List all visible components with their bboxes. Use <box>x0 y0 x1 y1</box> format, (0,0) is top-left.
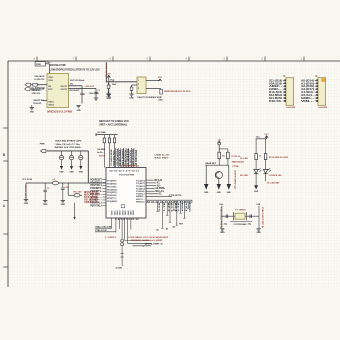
solder jumper chain <box>121 239 124 242</box>
svg-text:LDO·EN·BYP: LDO·EN·BYP <box>69 90 80 92</box>
svg-text:SDA·A4·: SDA·A4· <box>155 190 164 193</box>
comb below right bus <box>156 201 190 228</box>
regulator U1 body <box>47 73 68 107</box>
svg-text:GND1: GND1 <box>48 101 55 103</box>
rail above IC <box>96 134 118 136</box>
svg-text:GND: GND <box>106 97 111 99</box>
LED D2 ground arrow <box>255 174 257 186</box>
cap C11 <box>225 214 227 218</box>
svg-text:PB7/XTAL2: PB7/XTAL2 <box>90 205 102 208</box>
ground left drop <box>24 199 28 201</box>
svg-text:BASE·NET: BASE·NET <box>206 162 217 165</box>
wires to LEDs <box>255 160 257 170</box>
cap C12 <box>249 214 251 218</box>
resistor R2 <box>103 135 105 138</box>
svg-text:GN7: GN7 <box>131 210 133 215</box>
vertical net run with arrow <box>74 203 76 217</box>
U2 bottom inner rotated pin names <box>112 209 136 215</box>
resistor R4 <box>114 135 116 138</box>
resistor R6 <box>218 152 221 159</box>
svg-text:PD5(T1)··: PD5(T1)·· <box>107 198 117 200</box>
stub to ground from U3 pin2 <box>132 84 138 86</box>
U2 right pin wires <box>146 180 158 194</box>
ferrite bead L2 <box>53 181 59 185</box>
svg-text:EN: EN <box>48 86 51 88</box>
svg-text:PC2(ADC2): PC2(ADC2) <box>136 185 145 188</box>
ground under C5 <box>106 92 110 94</box>
svg-text:PD2/INT0·: PD2/INT0· <box>90 188 102 190</box>
capacitor C8 <box>80 151 82 156</box>
svg-text:MIC5219-3.3YM5: MIC5219-3.3YM5 <box>50 65 67 67</box>
svg-text:A3·PWM·: A3·PWM· <box>155 187 165 190</box>
svg-text:GN3: GN3 <box>120 210 122 215</box>
svg-text:ICSP·MISO·VCC·SCK·MOSI·RST: ICSP·MISO·VCC·SCK·MOSI·RST <box>128 237 169 239</box>
svg-text:GN6: GN6 <box>128 210 130 215</box>
U2 bottom pin wires <box>112 218 131 243</box>
J2 polarity mark <box>321 78 325 82</box>
ground under C1 <box>107 93 111 95</box>
power connector arrow <box>41 149 46 152</box>
svg-text:AVR-ISP-6: AVR-ISP-6 <box>145 243 165 246</box>
crystal top wire <box>222 215 259 217</box>
resistor R5 <box>74 194 80 197</box>
J1 pin stubs <box>283 79 286 102</box>
frame tick marks top <box>34 57 305 62</box>
wire U1 OUT to 3V3 <box>68 85 82 87</box>
svg-text:GN8: GN8 <box>133 210 135 215</box>
power rail wire <box>47 150 89 152</box>
svg-text:GND: GND <box>158 99 163 101</box>
frame border left <box>7 61 9 287</box>
svg-text:R2·R3: R2·R3 <box>99 155 105 157</box>
svg-text:VIN···: VIN··· <box>301 100 314 103</box>
connector arrow X1-1 <box>25 83 30 86</box>
svg-text:A1·: A1· <box>157 182 160 185</box>
svg-text:PWR: PWR <box>40 144 45 146</box>
svg-text:GND: GND <box>30 112 35 114</box>
svg-text:CSTCE16M0: CSTCE16M0 <box>234 224 247 226</box>
tick under ISP <box>142 246 144 247</box>
svg-text:CTRL: CTRL <box>232 166 240 168</box>
svg-text:A2··: A2·· <box>157 184 161 187</box>
svg-text:VCC: VCC <box>264 134 269 136</box>
svg-text:RATED 16V X7R 0805··: RATED 16V X7R 0805·· <box>55 146 83 149</box>
power symbol VCC <box>265 136 268 138</box>
svg-text:GND: GND <box>79 172 84 174</box>
LED D3 <box>263 169 267 173</box>
svg-text:XTAL2·OSC2·PB7·IN: XTAL2·OSC2·PB7·IN <box>261 207 264 228</box>
VCC rail to IC <box>26 182 106 184</box>
left drop wire <box>25 183 27 200</box>
svg-text:1x8 HDR: 1x8 HDR <box>286 107 295 109</box>
svg-text:PC6/RESET: PC6/RESET <box>90 179 102 181</box>
svg-text:PWR: PWR <box>36 64 42 66</box>
svg-text:AVCC·NET: AVCC·NET <box>24 185 27 199</box>
svg-text:MMBT2222A: MMBT2222A <box>232 160 244 163</box>
svg-text:GND: GND <box>254 191 259 193</box>
svg-text:+3V3·OUT·: +3V3·OUT· <box>85 86 95 88</box>
svg-text:PD0/RXD·0: PD0/RXD·0 <box>90 182 102 184</box>
svg-text:GND: GND <box>61 204 66 206</box>
svg-text:R5 10k: R5 10k <box>74 192 83 194</box>
svg-text:GN0: GN0 <box>112 210 114 215</box>
svg-text:USB D+/D-: USB D+/D- <box>155 154 171 156</box>
svg-text:VOUT·3V3·500mA: VOUT·3V3·500mA <box>70 79 85 82</box>
cap C9 drop <box>44 183 46 190</box>
svg-text:10k·RN1: 10k·RN1 <box>97 149 106 151</box>
resistor R9 <box>264 154 267 160</box>
svg-text:PD6(AIN0): PD6(AIN0) <box>107 200 117 203</box>
resistor R3 <box>108 135 110 138</box>
svg-text:VOUT1: VOUT1 <box>60 86 68 88</box>
svg-text:Y1·16MHz: Y1·16MHz <box>235 210 246 212</box>
LED branch wires <box>255 139 257 154</box>
svg-text:PD1/TXD·1: PD1/TXD·1 <box>90 185 102 187</box>
wires below resistors <box>218 159 220 166</box>
svg-text:VOUT2: VOUT2 <box>60 89 68 91</box>
ground under C8 <box>79 166 82 170</box>
connector J1 body <box>286 78 294 106</box>
svg-text:PD4(XCK)·: PD4(XCK)· <box>107 194 117 197</box>
svg-text:SOD-123·: SOD-123· <box>32 93 41 95</box>
rail left tick <box>95 133 97 136</box>
svg-text:GN4: GN4 <box>121 209 124 215</box>
svg-text:PD1/TXD·D1: PD1/TXD·D1 <box>118 150 120 167</box>
J1 pin net labels <box>269 79 282 103</box>
jumper JP6 box <box>35 62 45 66</box>
U3 output to VCC arrow <box>146 79 160 81</box>
ferrite bead L1 <box>33 83 38 86</box>
capacitor C6 <box>61 151 63 156</box>
ground under left pins <box>31 105 33 107</box>
frame border top <box>8 60 340 62</box>
U3 pin3 wire <box>146 88 161 90</box>
wire to U3 <box>107 81 138 83</box>
crystal right branch <box>258 206 260 229</box>
crystal left branch <box>221 206 223 229</box>
ground under C6 <box>60 166 63 170</box>
svg-text:GN2: GN2 <box>117 210 119 215</box>
comb of wires into IC top <box>116 148 134 168</box>
off-page arrow 1 <box>205 165 207 184</box>
vertical net wire with rotated label DTR <box>106 62 108 82</box>
bend wire XTAL1 <box>95 227 112 229</box>
resistor R7 <box>227 152 230 159</box>
ground under C9 <box>43 200 47 202</box>
svg-text:GND: GND <box>43 204 48 206</box>
ground under C10 <box>61 200 65 202</box>
J2 pin net labels <box>301 79 314 103</box>
svg-text:MBRA140··: MBRA140·· <box>32 89 42 92</box>
svg-text:AREF = AVCC (INTERNAL): AREF = AVCC (INTERNAL) <box>99 123 127 126</box>
svg-text:XTAL1·OSC1·PB6·IN: XTAL1·OSC1·PB6·IN <box>220 207 223 228</box>
svg-text:74LVC1G125DBV BUF: 74LVC1G125DBV BUF <box>137 96 163 99</box>
ground under C7 <box>70 166 73 170</box>
IC left pin wires and labels <box>90 179 106 207</box>
LED D3 net label <box>265 174 267 182</box>
svg-text:LOW DROPOUT REGULATOR 5V TO 3.: LOW DROPOUT REGULATOR 5V TO 3.3V LDO <box>50 68 100 71</box>
svg-text:GND: GND <box>220 232 225 234</box>
resistor R1 <box>160 89 163 94</box>
ON/OFF stub <box>43 99 48 101</box>
svg-text:GND: GND <box>24 203 29 205</box>
U2 thermal pad mark <box>121 205 125 208</box>
ground left <box>220 228 224 230</box>
rotated net labels over comb <box>116 149 137 167</box>
svg-text:GND: GND <box>256 232 261 234</box>
svg-text:4x1k··: 4x1k·· <box>97 151 104 154</box>
connector J2 body <box>318 78 326 106</box>
rail bend down to VCC rail <box>87 151 89 183</box>
svg-text:L··LED13↓: L··LED13↓ <box>105 236 117 239</box>
lower crystal wire <box>230 221 252 223</box>
resistor R8 <box>255 154 258 160</box>
ground under C3 <box>94 97 98 99</box>
svg-text:GND: GND <box>227 192 232 194</box>
ground under C2 <box>76 104 80 106</box>
cap C10 drop <box>62 183 64 187</box>
svg-text:+5V RAIL: +5V RAIL <box>97 131 107 134</box>
branch wire to RESET pull-up <box>67 183 69 195</box>
svg-text:CTS·RTS··: CTS·RTS·· <box>169 195 183 197</box>
svg-text:100n·CAP·R10k: 100n·CAP·R10k <box>112 150 115 166</box>
transistor Q2 <box>215 171 222 178</box>
svg-text:MMBT2222A SOT-23 NPN: MMBT2222A SOT-23 NPN <box>164 90 191 93</box>
U2 left inner pin names <box>107 181 117 203</box>
split wire <box>219 148 228 150</box>
svg-text:VCC: VCC <box>110 79 115 81</box>
svg-text:MIC5219-3.3YM5: MIC5219-3.3YM5 <box>47 112 73 114</box>
off-page arrow 3 <box>228 165 230 184</box>
lower right bus wires <box>146 199 192 201</box>
dense net label block left of IC <box>84 192 99 204</box>
svg-text:VCC: VCC <box>256 137 261 139</box>
svg-text:PD2/INT0·D2: PD2/INT0·D2 <box>121 149 123 166</box>
svg-text:DTR_RESET_N: DTR_RESET_N <box>104 64 106 84</box>
svg-text:GND: GND <box>69 172 74 174</box>
buffer U3 body <box>137 77 146 94</box>
connector arrow X1-2 <box>25 88 30 91</box>
U2 right net labels <box>154 179 166 196</box>
svg-text:PD1(TXD)·: PD1(TXD)· <box>107 186 117 188</box>
svg-text:VCC·5V·IN: VCC·5V·IN <box>22 179 32 181</box>
svg-text:100n·16V: 100n·16V <box>89 93 100 95</box>
svg-text:PD2(INT0): PD2(INT0) <box>107 189 117 191</box>
off-page arrow 2 <box>218 179 220 184</box>
svg-text:C3: C3 <box>98 90 100 92</box>
svg-text:GN5: GN5 <box>125 210 127 215</box>
svg-text:30·31·32·1·2·9·10·11: 30·31·32·1·2·9·10·11 <box>109 170 140 172</box>
svg-text:PD0(RXD)·: PD0(RXD)· <box>107 184 117 186</box>
ISP bend wire 2 <box>127 242 151 244</box>
svg-text:BULK AND BYPASS CAPS: BULK AND BYPASS CAPS <box>55 139 82 142</box>
svg-text:GND: GND <box>76 110 81 112</box>
svg-text:GN1: GN1 <box>114 210 116 215</box>
svg-text:GND: GND <box>129 97 134 99</box>
svg-text:PC4(SDA)·: PC4(SDA)· <box>136 190 145 193</box>
svg-text:AVCC··: AVCC·· <box>136 198 145 201</box>
+5V input cap branch <box>107 75 110 77</box>
svg-text:PD3·PD4·PB6: PD3·PD4·PB6 <box>119 173 135 176</box>
svg-text:AREF··: AREF·· <box>136 195 145 198</box>
svg-text:PULLUP··: PULLUP·· <box>33 103 42 105</box>
MCU U2 body <box>106 168 146 219</box>
svg-text:100n·C6 1uF·C7 10u: 100n·C6 1uF·C7 10u <box>55 144 80 146</box>
cap C3 <box>95 88 97 91</box>
svg-text:ADC0·A0: ADC0·A0 <box>154 179 163 182</box>
svg-text:A-GND: A-GND <box>116 266 123 269</box>
bend wire XTAL2 <box>95 231 116 233</box>
power symbol +5V <box>218 141 221 143</box>
svg-text:XTAL2·OSC: XTAL2·OSC <box>95 229 108 232</box>
J2 pin stubs <box>315 79 318 102</box>
frame tick marks left <box>3 128 8 267</box>
ground under stub <box>129 93 133 95</box>
svg-text:PC0(ADC0): PC0(ADC0) <box>136 180 145 183</box>
svg-text:D10·SS·: D10·SS· <box>269 100 282 103</box>
svg-text:GND2: GND2 <box>48 104 55 106</box>
LED top rail <box>256 138 267 140</box>
wire JP6 to U1 <box>46 63 50 65</box>
svg-text:A0: A0 <box>156 229 158 232</box>
svg-text:TX_LED·NET: TX_LED·NET <box>267 182 281 184</box>
svg-text:VCC: VCC <box>158 77 163 79</box>
bypass cap C2 <box>81 86 83 93</box>
svg-text:1x8 HDR: 1x8 HDR <box>318 107 327 109</box>
LED D2 <box>254 169 258 173</box>
svg-text:X1B: X1B <box>256 204 260 206</box>
svg-text:10uF: 10uF <box>112 84 118 86</box>
svg-text:GND: GND <box>59 172 64 174</box>
svg-text:XTAL1·OSC·16M: XTAL1·OSC·16M <box>95 225 111 228</box>
crystal Y1 body <box>235 213 245 219</box>
svg-text:PC3(ADC3): PC3(ADC3) <box>136 187 145 190</box>
ISP bend wire 1 <box>125 239 150 241</box>
capacitor C7 <box>71 151 73 156</box>
svg-text:GND: GND <box>204 192 209 194</box>
ground right <box>256 228 260 230</box>
series cap C5 <box>108 83 110 85</box>
ISP lower wire <box>132 245 151 247</box>
wire X1-1 to U1 <box>31 84 47 86</box>
svg-text:DC_IN·PROT·D4: DC_IN·PROT·D4 <box>32 86 46 89</box>
svg-text:BYP: BYP <box>48 89 53 91</box>
svg-text:PD6/OC0A·AIN0: PD6/OC0A·AIN0 <box>131 149 134 166</box>
svg-text:R9·1K·RES·5%·0805: R9·1K·RES·5%·0805 <box>269 157 289 159</box>
svg-text:AREF·C13··: AREF·C13·· <box>84 201 99 204</box>
svg-text:GND: GND <box>217 192 222 194</box>
svg-text:PB5(SCK)·: PB5(SCK)· <box>136 201 145 203</box>
svg-text:IO·LED: IO·LED <box>240 158 249 160</box>
svg-text:SCL: SCL <box>159 194 163 196</box>
sheet with grid <box>8 61 340 287</box>
svg-text:PD3(INT1): PD3(INT1) <box>107 192 117 194</box>
svg-text:VIN·JACK: VIN·JACK <box>35 75 45 78</box>
svg-text:GATE·DRV·Q2: GATE·DRV·Q2 <box>234 170 237 190</box>
svg-text:RESET·GND·2x3·HDR: RESET·GND·2x3·HDR <box>131 240 163 242</box>
svg-text:6-12V·DC: 6-12V·DC <box>35 79 46 81</box>
U2 right inner pin names <box>136 180 145 204</box>
svg-text:RX·LED: RX·LED <box>240 175 249 177</box>
svg-text:→D13/SCK·LED: →D13/SCK·LED <box>268 175 283 177</box>
svg-text:C2: C2 <box>83 94 85 96</box>
row7 wire with label <box>146 196 172 198</box>
svg-text:PC6(RST)·: PC6(RST)· <box>107 181 117 183</box>
svg-text:ATMEGA328P-AU: ATMEGA328P-AU <box>121 164 140 167</box>
svg-text:ESD·PRT··: ESD·PRT·· <box>155 158 171 160</box>
svg-text:PD4/XCK·T0: PD4/XCK·T0 <box>126 149 129 166</box>
svg-text:A2: A2 <box>166 227 168 230</box>
svg-text:PC1(ADC1): PC1(ADC1) <box>136 182 145 185</box>
node rail <box>205 164 229 166</box>
svg-text:X1A: X1A <box>219 203 223 206</box>
svg-text:RESET·DTR·C4: RESET·DTR·C4 <box>109 150 112 167</box>
wire OUT2 <box>68 87 96 89</box>
wire X1-2 <box>31 88 44 90</box>
